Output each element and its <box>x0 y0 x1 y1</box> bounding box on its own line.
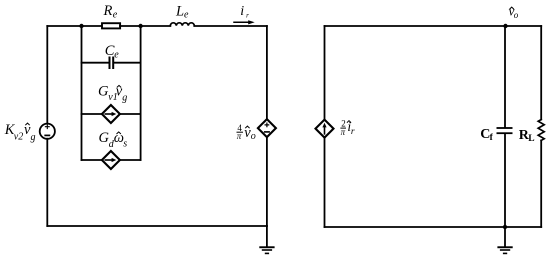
svg-text:g: g <box>31 132 36 143</box>
label Ce <box>105 43 119 60</box>
wire: Ce branch right lead <box>114 62 141 64</box>
voltage source Kv2*vg (circle) <box>40 124 55 139</box>
svg-text:s: s <box>123 138 127 149</box>
node vo junction (top) <box>503 24 507 28</box>
label RL <box>519 128 535 144</box>
ground (right circuit) <box>497 246 512 254</box>
dependent source Gv1*vg (diamond with right arrow) <box>102 105 120 123</box>
wire: Gv1 branch left lead <box>82 113 102 115</box>
wire: ground stem of right circuit <box>504 227 506 246</box>
label Cf <box>480 127 493 143</box>
svg-text:i: i <box>240 4 244 19</box>
resistor RL (zigzag) <box>538 120 544 141</box>
label Kv2 vg <box>4 122 36 143</box>
label 4/pi vo <box>237 123 256 142</box>
svg-text:r: r <box>351 127 355 137</box>
svg-text:L: L <box>528 134 534 144</box>
label Le <box>175 4 189 21</box>
dependent source Gd*ws (diamond with right arrow) <box>102 151 120 169</box>
svg-text:e: e <box>114 49 119 60</box>
label Gd ws <box>99 130 128 150</box>
inductor Le <box>170 23 194 26</box>
node junction at left of Re <box>79 24 83 28</box>
current arrow i_r on top wire <box>234 20 255 24</box>
wire: right circuit left rail lower <box>324 138 326 227</box>
resistor Re <box>102 23 120 28</box>
svg-text:o: o <box>251 131 256 142</box>
svg-text:r: r <box>246 12 249 20</box>
wire: Re to inductor Le <box>120 25 170 27</box>
wire: ground stem of left circuit <box>266 226 268 246</box>
svg-text:o: o <box>514 10 519 20</box>
wire: right circuit bottom <box>325 226 542 228</box>
svg-text:e: e <box>113 9 118 20</box>
wire: right circuit right rail upper <box>540 26 542 120</box>
label Gv1 vg <box>98 84 127 104</box>
wire: left rail lower (source to bottom wire) <box>46 139 48 226</box>
svg-text:π: π <box>237 131 242 141</box>
svg-text:e: e <box>184 10 189 21</box>
node junction at bottom of Cf rail <box>503 225 507 229</box>
wire: right circuit right rail lower <box>540 140 542 227</box>
wire: inner left rail <box>81 26 83 160</box>
label Re <box>103 3 118 20</box>
wire: Ce branch left lead <box>82 62 110 64</box>
wire: Cf rail upper <box>504 26 506 127</box>
wire: right circuit top <box>325 25 542 27</box>
capacitor Ce <box>110 58 114 69</box>
label vo (node) <box>509 4 519 20</box>
wire: left rail upper (source node down to Kv2 source) <box>46 26 48 124</box>
wire: Gv1 branch right lead <box>120 113 141 115</box>
wire: inner right rail <box>140 26 142 160</box>
wire: Gd branch right lead <box>120 159 141 161</box>
wire: left circuit top, source node to Re <box>47 25 102 27</box>
wire: Cf rail lower <box>504 134 506 227</box>
wire: right rail of left loop, top to dependent source <box>266 26 268 119</box>
wire: Gd branch left lead <box>82 159 102 161</box>
wire: left circuit bottom <box>47 225 267 227</box>
dependent current source 2/pi*ir (diamond with up arrow) <box>316 120 334 138</box>
capacitor Cf <box>497 127 513 134</box>
wire: right circuit left rail upper <box>324 26 326 120</box>
dependent voltage source 4/pi*vo (diamond) <box>258 119 276 137</box>
label 2/pi ir <box>340 118 355 137</box>
svg-text:g: g <box>122 93 127 104</box>
wire: right rail of left loop, dependent source to bottom <box>266 137 268 226</box>
wire: Le to right rail of left loop <box>194 25 267 27</box>
svg-text:L: L <box>175 4 184 20</box>
label i_r (current) <box>240 4 249 19</box>
svg-text:R: R <box>103 3 113 19</box>
ground (left circuit) <box>259 246 274 254</box>
node junction at right of Re <box>138 24 142 28</box>
svg-text:v2: v2 <box>14 131 23 142</box>
svg-text:π: π <box>341 127 346 137</box>
